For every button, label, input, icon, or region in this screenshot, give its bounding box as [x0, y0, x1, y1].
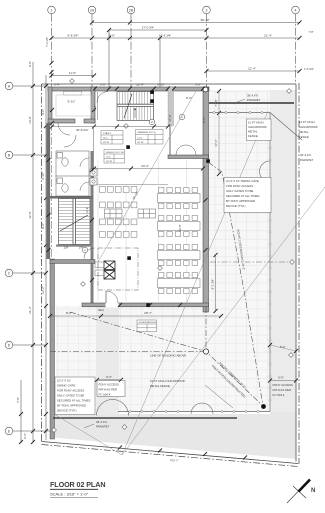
svg-text:BY FDNY APPROVED: BY FDNY APPROVED	[57, 404, 86, 408]
svg-text:3'-0": 3'-0"	[195, 83, 201, 87]
svg-text:SINGLE OCC. WC: SINGLE OCC. WC	[106, 152, 125, 154]
svg-text:FDNY ACCESS: FDNY ACCESS	[99, 383, 119, 387]
svg-text:9'-0": 9'-0"	[41, 109, 45, 115]
svg-text:FOR FDNY ACCESS: FOR FDNY ACCESS	[226, 184, 253, 188]
svg-text:8'-1 3/4": 8'-1 3/4"	[211, 279, 215, 290]
svg-text:102'-7": 102'-7"	[170, 458, 179, 463]
svg-text:21'-4": 21'-4"	[248, 67, 256, 71]
svg-text:SCALE : 3/16" = 1'-0": SCALE : 3/16" = 1'-0"	[50, 492, 89, 497]
svg-text:7'-8": 7'-8"	[16, 397, 20, 403]
svg-text:17'-8": 17'-8"	[168, 114, 172, 121]
svg-text:16'-3 3/4": 16'-3 3/4"	[159, 34, 172, 38]
svg-text:21'-4": 21'-4"	[264, 34, 272, 38]
svg-text:METAL: METAL	[248, 130, 258, 134]
svg-text:10 FT HIGH: 10 FT HIGH	[248, 121, 264, 125]
svg-text:SECURED AT ALL TIMES: SECURED AT ALL TIMES	[226, 194, 260, 198]
svg-text:HT 9F: HT 9F	[103, 142, 110, 144]
svg-text:5'-2": 5'-2"	[100, 83, 106, 87]
svg-text:SLIDER RECESS: SLIDER RECESS	[139, 322, 157, 324]
svg-text:CLG: CLG	[138, 138, 143, 140]
svg-text:PARAPET: PARAPET	[96, 425, 110, 429]
svg-text:1'-6 3/4": 1'-6 3/4"	[304, 67, 314, 71]
svg-text:38' A.F.F.: 38' A.F.F.	[96, 420, 108, 424]
svg-text:7'-4": 7'-4"	[93, 105, 97, 111]
svg-text:DEVICE (TYP.): DEVICE (TYP.)	[226, 204, 246, 208]
svg-text:5'-10": 5'-10"	[157, 83, 165, 87]
svg-text:METAL FENCE: METAL FENCE	[150, 384, 170, 388]
svg-text:6'-0": 6'-0"	[106, 375, 112, 379]
svg-text:12'-2": 12'-2"	[41, 286, 45, 294]
svg-text:8'-10": 8'-10"	[41, 172, 45, 180]
svg-text:PARAPET: PARAPET	[247, 98, 261, 102]
svg-text:3: 3	[206, 8, 208, 12]
svg-text:SECURED AT ALL TIMES: SECURED AT ALL TIMES	[57, 399, 91, 403]
svg-text:17'-6": 17'-6"	[214, 139, 218, 146]
svg-text:FDNY ACCESS: FDNY ACCESS	[273, 383, 293, 387]
svg-text:FLOOR 02 PLAN: FLOOR 02 PLAN	[50, 480, 105, 489]
svg-text:(2) 3' X 10': (2) 3' X 10'	[57, 379, 71, 383]
svg-text:2B: 2B	[129, 8, 134, 12]
svg-text:CHILDPROOF: CHILDPROOF	[299, 125, 318, 129]
svg-text:9'-6": 9'-6"	[41, 223, 45, 229]
svg-text:9'-8 3/4": 9'-8 3/4"	[68, 34, 79, 38]
svg-text:22R: 22R	[64, 246, 69, 250]
svg-text:(2) 3' X 10' SWING GATE: (2) 3' X 10' SWING GATE	[226, 179, 259, 183]
svg-text:PATH AS PER: PATH AS PER	[99, 388, 118, 392]
svg-text:WARMING KITCH: WARMING KITCH	[138, 131, 156, 134]
svg-text:FENCE: FENCE	[248, 134, 258, 138]
svg-text:32' A.F.F.: 32' A.F.F.	[300, 153, 312, 157]
svg-text:HT 9F: HT 9F	[106, 161, 113, 163]
svg-text:38'-10": 38'-10"	[200, 18, 209, 22]
svg-text:36'-8 3/4": 36'-8 3/4"	[76, 128, 89, 132]
svg-text:6'-0": 6'-0"	[278, 376, 284, 380]
svg-text:8'-6": 8'-6"	[66, 311, 72, 315]
svg-text:PATH AS PER: PATH AS PER	[273, 388, 292, 392]
svg-text:CLG: CLG	[106, 157, 111, 159]
svg-text:9'-0": 9'-0"	[109, 34, 115, 38]
svg-text:ONLY GATES TO BE: ONLY GATES TO BE	[226, 189, 253, 193]
svg-text:STAIR 2: STAIR 2	[103, 132, 112, 135]
svg-text:12'-0": 12'-0"	[86, 207, 89, 213]
svg-text:METAL: METAL	[299, 130, 309, 134]
svg-text:ONLY GATES TO BE: ONLY GATES TO BE	[57, 394, 84, 398]
svg-text:16'-8": 16'-8"	[28, 116, 32, 124]
svg-text:36'-8": 36'-8"	[178, 224, 182, 231]
svg-text:LINE OF BUILDING ABOVE: LINE OF BUILDING ABOVE	[150, 354, 186, 358]
svg-text:42'-8": 42'-8"	[28, 211, 32, 219]
svg-text:29'-7": 29'-7"	[144, 311, 152, 315]
svg-text:23'-3": 23'-3"	[141, 164, 149, 168]
svg-text:9'-2": 9'-2"	[202, 117, 206, 123]
svg-text:27'-0 3/4": 27'-0 3/4"	[142, 26, 155, 30]
svg-text:9'-8": 9'-8"	[28, 61, 32, 67]
svg-text:3'-4": 3'-4"	[54, 83, 60, 87]
svg-text:DEVICE (TYP.): DEVICE (TYP.)	[57, 409, 77, 413]
svg-text:CHILDPROOF: CHILDPROOF	[248, 125, 267, 129]
svg-text:FENCE: FENCE	[299, 135, 309, 139]
svg-text:SWING GATE: SWING GATE	[57, 384, 75, 388]
svg-text:12'-4": 12'-4"	[136, 83, 144, 87]
svg-text:11'-0": 11'-0"	[69, 71, 76, 75]
svg-text:FOR FDNY ACCESS: FOR FDNY ACCESS	[57, 389, 84, 393]
svg-text:31'-2": 31'-2"	[28, 306, 32, 314]
svg-text:2'-6": 2'-6"	[23, 433, 27, 439]
svg-text:38' A.F.F.: 38' A.F.F.	[247, 94, 259, 98]
svg-text:8'-10": 8'-10"	[68, 100, 76, 104]
svg-text:FC 504.4: FC 504.4	[99, 393, 111, 397]
svg-text:BY FDNY APPROVED: BY FDNY APPROVED	[226, 199, 255, 203]
svg-text:1: 1	[51, 8, 53, 12]
svg-text:FC 504.4: FC 504.4	[273, 393, 285, 397]
svg-text:12 FT HIGH: 12 FT HIGH	[299, 120, 315, 124]
svg-text:2A: 2A	[90, 8, 95, 12]
svg-text:7'-8": 7'-8"	[308, 30, 313, 34]
svg-text:HT 9F: HT 9F	[138, 142, 145, 144]
svg-text:4: 4	[295, 8, 297, 12]
svg-text:SEAL: SEAL	[98, 309, 105, 312]
svg-text:CLG: CLG	[103, 138, 108, 140]
svg-text:7'-2 1/4": 7'-2 1/4"	[45, 37, 49, 47]
svg-text:10 FT HIGH CHILDPROOF: 10 FT HIGH CHILDPROOF	[150, 379, 186, 383]
svg-text:N: N	[311, 488, 315, 494]
svg-text:PARAPET: PARAPET	[300, 158, 314, 162]
